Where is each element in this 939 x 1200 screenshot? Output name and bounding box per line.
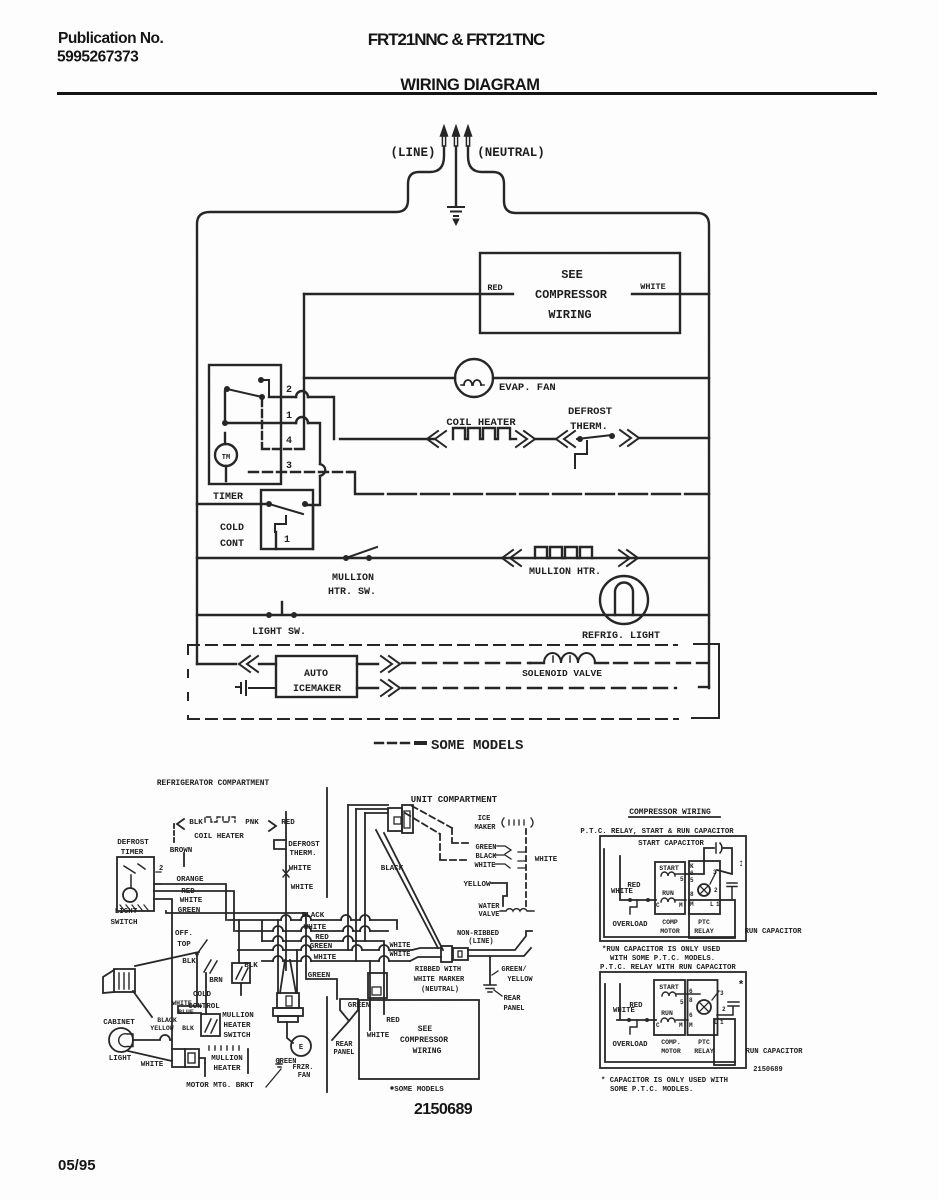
svg-text:RUN CAPACITOR: RUN CAPACITOR [746,1048,804,1056]
svg-text:MAKER: MAKER [474,824,496,832]
svg-text:GREEN: GREEN [310,943,333,951]
svg-text:YELLOW: YELLOW [507,976,533,984]
svg-text:BLACK: BLACK [302,912,325,920]
svg-text:5: 5 [680,999,684,1006]
svg-text:TOP: TOP [177,941,191,949]
svg-text:NON-RIBBED: NON-RIBBED [457,930,499,938]
svg-text:COIL HEATER: COIL HEATER [446,417,516,429]
svg-text:2: 2 [722,1006,726,1013]
svg-text:YELLOW: YELLOW [150,1025,174,1032]
svg-text:MOTOR: MOTOR [661,1048,681,1055]
svg-text:COLD: COLD [220,523,244,534]
svg-text:(LINE): (LINE) [468,938,493,946]
svg-text:LIGHT: LIGHT [115,908,138,916]
svg-text:WHITE: WHITE [289,865,312,873]
svg-text:WHITE: WHITE [314,954,337,962]
svg-text:COMPRESSOR: COMPRESSOR [535,288,608,302]
svg-text:1: 1 [284,535,290,546]
svg-text:WHITE: WHITE [304,924,327,932]
svg-text:*RUN CAPACITOR IS ONLY USED: *RUN CAPACITOR IS ONLY USED [602,946,721,954]
svg-text:SOME MODELS: SOME MODELS [394,1086,444,1094]
svg-text:WHITE: WHITE [474,862,495,870]
svg-text:UNIT COMPARTMENT: UNIT COMPARTMENT [411,795,498,805]
svg-text:OVERLOAD: OVERLOAD [612,1041,648,1049]
svg-text:BRN: BRN [209,977,223,985]
svg-text:4: 4 [286,436,292,447]
svg-text:SEE: SEE [418,1025,433,1034]
svg-text:2150689: 2150689 [753,1066,782,1074]
svg-text:VALVE: VALVE [478,911,499,919]
svg-text:MULLION HTR.: MULLION HTR. [529,567,601,578]
svg-text:WHITE: WHITE [535,856,558,864]
svg-text:WHITE: WHITE [172,1000,192,1007]
svg-text:L: L [710,901,714,908]
svg-text:COLD: COLD [193,991,212,999]
svg-text:BLUE: BLUE [178,1009,194,1016]
svg-text:THERM.: THERM. [570,421,608,433]
svg-text:BLK: BLK [182,1025,194,1032]
svg-text:* CAPACITOR IS ONLY USED WITH: * CAPACITOR IS ONLY USED WITH [601,1077,728,1085]
svg-text:DEFROST: DEFROST [568,406,612,418]
svg-text:SOME P.T.C. MODLES.: SOME P.T.C. MODLES. [610,1086,693,1094]
svg-text:1: 1 [716,901,720,908]
svg-text:COMP.: COMP. [661,1039,681,1046]
svg-text:8: 8 [690,891,694,898]
svg-text:WHITE: WHITE [389,951,410,959]
svg-text:2150689: 2150689 [414,1101,473,1118]
svg-text:RED: RED [386,1017,400,1025]
svg-text:GREEN: GREEN [178,907,201,915]
svg-text:REFRIG. LIGHT: REFRIG. LIGHT [582,631,660,642]
svg-text:START: START [659,984,679,991]
svg-text:M: M [679,1022,683,1029]
svg-text:EVAP. FAN: EVAP. FAN [499,382,556,394]
svg-text:(LINE): (LINE) [390,146,435,160]
svg-text:PTC: PTC [698,1039,710,1046]
svg-text:BROWN: BROWN [170,847,193,855]
svg-text:3: 3 [720,990,724,997]
svg-text:WATER: WATER [478,903,500,911]
svg-text:SOME MODELS: SOME MODELS [431,738,523,754]
svg-text:LIGHT SW.: LIGHT SW. [252,627,306,638]
svg-text:K: K [690,863,694,870]
svg-text:WIRING: WIRING [413,1047,442,1056]
svg-text:HTR. SW.: HTR. SW. [328,587,376,598]
svg-text:TIMER: TIMER [213,492,243,503]
svg-text:GREEN: GREEN [348,1002,371,1010]
svg-text:C: C [656,1022,660,1029]
svg-text:05/95: 05/95 [58,1157,96,1174]
svg-text:SEE: SEE [561,268,583,282]
svg-text:Publication No.: Publication No. [58,30,164,47]
svg-text:WIRING: WIRING [548,308,591,322]
svg-text:WHITE MARKER: WHITE MARKER [414,976,465,984]
svg-text:THERM.: THERM. [289,850,316,858]
svg-text:3: 3 [286,461,292,472]
svg-text:2: 2 [159,865,163,873]
svg-text:AUTO: AUTO [304,669,328,680]
svg-text:PANEL: PANEL [503,1005,524,1013]
svg-text:8: 8 [689,997,693,1004]
svg-text:SWITCH: SWITCH [110,919,137,927]
svg-text:WITH SOME P.T.C. MODELS.: WITH SOME P.T.C. MODELS. [610,955,715,963]
svg-text:WHITE: WHITE [640,282,666,292]
svg-text:BLK: BLK [189,819,203,827]
svg-text:MULLION: MULLION [222,1012,254,1020]
svg-text:↕: ↕ [738,859,744,870]
svg-text:RED: RED [281,819,295,827]
svg-text:CONT: CONT [220,539,244,550]
svg-text:START CAPACITOR: START CAPACITOR [638,840,704,848]
svg-text:BLACK: BLACK [475,853,497,861]
svg-text:FRT21NNC & FRT21TNC: FRT21NNC & FRT21TNC [368,30,545,49]
svg-text:GREEN/: GREEN/ [501,966,526,974]
svg-text:1: 1 [286,411,292,422]
svg-text:DEFROST: DEFROST [117,839,149,847]
svg-text:SWITCH: SWITCH [223,1032,250,1040]
svg-text:WHITE: WHITE [611,888,634,896]
svg-text:MULLION: MULLION [332,573,374,584]
svg-text:ICEMAKER: ICEMAKER [293,684,341,695]
svg-text:*: * [738,980,745,992]
svg-text:(NEUTRAL): (NEUTRAL) [477,146,545,160]
svg-text:MULLION: MULLION [211,1055,243,1063]
svg-text:HEATER: HEATER [223,1022,251,1030]
svg-text:COIL HEATER: COIL HEATER [194,833,244,841]
svg-text:P.T.C. RELAY, START & RUN CAPA: P.T.C. RELAY, START & RUN CAPACITOR [580,828,734,836]
svg-text:(NEUTRAL): (NEUTRAL) [421,986,459,994]
svg-text:MOTOR MTG. BRKT: MOTOR MTG. BRKT [186,1082,254,1090]
svg-text:TM: TM [222,454,230,462]
svg-text:WHITE: WHITE [389,942,410,950]
svg-text:OVERLOAD: OVERLOAD [612,921,648,929]
svg-text:BLK: BLK [244,962,258,970]
svg-text:MOTOR: MOTOR [660,928,680,935]
svg-text:M: M [679,902,683,909]
svg-text:PNK: PNK [245,819,259,827]
svg-text:WHITE: WHITE [141,1061,164,1069]
svg-text:GREEN: GREEN [308,972,331,980]
svg-text:WHITE: WHITE [180,897,203,905]
svg-text:START: START [659,865,679,872]
svg-text:LIGHT: LIGHT [109,1055,132,1063]
svg-text:COMPRESSOR WIRING: COMPRESSOR WIRING [629,808,711,817]
svg-text:P.T.C. RELAY WITH RUN CAPACITO: P.T.C. RELAY WITH RUN CAPACITOR [600,964,736,972]
svg-text:5: 5 [690,877,694,884]
svg-text:2: 2 [286,385,292,396]
svg-text:5995267373: 5995267373 [57,49,139,66]
svg-text:SOLENOID VALVE: SOLENOID VALVE [522,668,602,679]
svg-text:RUN: RUN [661,1010,673,1017]
svg-text:BLK: BLK [182,958,196,966]
svg-text:CABINET: CABINET [103,1019,135,1027]
svg-text:RED: RED [315,934,329,942]
svg-text:HEATER: HEATER [213,1065,241,1073]
svg-text:ICE: ICE [478,815,491,823]
svg-text:RUN CAPACITOR: RUN CAPACITOR [745,928,803,936]
svg-text:3: 3 [713,869,717,876]
svg-text:BLACK: BLACK [381,865,404,873]
svg-text:REAR: REAR [336,1041,354,1049]
svg-text:PTC: PTC [698,919,710,926]
svg-text:COMP: COMP [662,919,678,926]
svg-text:WIRING DIAGRAM: WIRING DIAGRAM [400,76,539,94]
svg-text:ORANGE: ORANGE [176,876,204,884]
svg-text:OFF.: OFF. [175,930,193,938]
svg-text:6: 6 [689,1012,693,1019]
svg-text:COMPRESSOR: COMPRESSOR [400,1036,448,1045]
svg-text:RELAY: RELAY [694,1048,714,1055]
svg-text:2: 2 [714,887,718,894]
svg-text:DEFROST: DEFROST [288,841,320,849]
svg-text:REFRIGERATOR COMPARTMENT: REFRIGERATOR COMPARTMENT [157,780,270,788]
svg-text:RED: RED [181,888,195,896]
svg-text:RELAY: RELAY [694,928,714,935]
svg-text:M: M [689,1022,693,1029]
svg-text:RUN: RUN [662,890,674,897]
svg-text:REAR: REAR [504,995,522,1003]
svg-text:L: L [714,1019,718,1026]
svg-text:C: C [656,902,660,909]
svg-text:WHITE: WHITE [613,1007,636,1015]
svg-text:BLACK: BLACK [157,1017,177,1024]
svg-text:TIMER: TIMER [121,849,144,857]
svg-text:RED: RED [487,283,502,293]
svg-text:E: E [299,1044,303,1052]
svg-text:RIBBED WITH: RIBBED WITH [415,966,461,974]
svg-text:WHITE: WHITE [291,884,314,892]
svg-text:WHITE: WHITE [367,1032,390,1040]
svg-text:PANEL: PANEL [333,1049,354,1057]
svg-text:FAN: FAN [298,1072,311,1080]
svg-text:1: 1 [720,1019,724,1026]
svg-text:6: 6 [689,988,693,995]
svg-text:5: 5 [680,876,684,883]
svg-text:FRZR.: FRZR. [292,1064,313,1072]
svg-text:M: M [690,901,694,908]
svg-text:GREEN: GREEN [475,844,496,852]
svg-text:YELLOW: YELLOW [463,881,491,889]
svg-text:6: 6 [690,870,694,877]
